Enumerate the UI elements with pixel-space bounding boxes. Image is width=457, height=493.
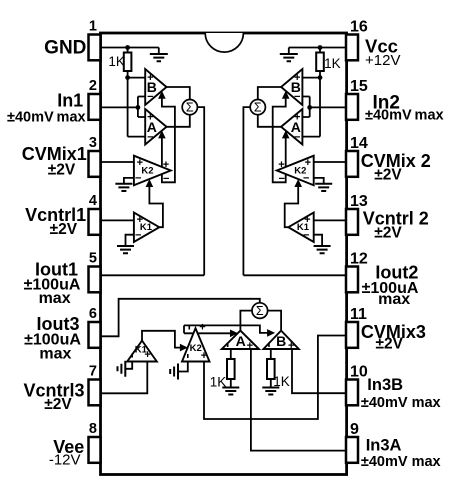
svg-text:±2V: ±2V: [374, 225, 402, 242]
svg-text:Σ: Σ: [186, 101, 194, 115]
svg-text:Σ: Σ: [254, 101, 262, 115]
svg-text:−: −: [147, 91, 153, 103]
svg-text:max: max: [39, 346, 71, 363]
svg-text:+: +: [147, 72, 153, 84]
svg-text:+: +: [304, 214, 310, 226]
svg-text:13: 13: [350, 193, 368, 210]
svg-text:2: 2: [89, 78, 97, 94]
svg-text:10: 10: [350, 364, 368, 381]
svg-text:8: 8: [89, 421, 97, 437]
svg-text:−: −: [135, 229, 141, 241]
svg-text:-12V: -12V: [49, 451, 81, 468]
svg-text:1K: 1K: [324, 56, 341, 71]
svg-text:−: −: [303, 172, 309, 184]
svg-text:+12V: +12V: [365, 52, 400, 69]
svg-text:−: −: [135, 172, 141, 184]
svg-text:±40mV max: ±40mV max: [361, 395, 441, 411]
svg-text:B: B: [276, 333, 286, 349]
svg-text:16: 16: [350, 19, 368, 36]
svg-text:+: +: [199, 321, 205, 333]
svg-text:−: −: [294, 91, 300, 103]
svg-text:max: max: [39, 290, 71, 307]
svg-text:GND: GND: [44, 37, 86, 58]
svg-text:−: −: [278, 173, 284, 185]
svg-text:Σ: Σ: [256, 304, 264, 318]
svg-text:K2: K2: [141, 166, 153, 177]
svg-text:+: +: [278, 159, 284, 171]
svg-text:±40mV max: ±40mV max: [7, 110, 86, 126]
svg-text:−: −: [163, 173, 169, 185]
svg-text:15: 15: [350, 78, 368, 95]
svg-text:5: 5: [89, 251, 97, 267]
svg-text:A: A: [236, 333, 246, 349]
svg-text:+: +: [294, 72, 300, 84]
svg-text:±40mV max: ±40mV max: [361, 454, 441, 470]
svg-text:max: max: [378, 291, 410, 308]
svg-text:3: 3: [89, 135, 97, 151]
svg-text:−: −: [147, 131, 153, 143]
svg-text:+: +: [137, 157, 143, 169]
svg-text:14: 14: [350, 135, 368, 152]
svg-text:4: 4: [89, 193, 97, 209]
svg-text:1: 1: [89, 19, 97, 35]
svg-text:12: 12: [350, 251, 368, 268]
svg-text:±2V: ±2V: [376, 336, 404, 353]
svg-text:+: +: [294, 112, 300, 124]
svg-text:+: +: [137, 214, 143, 226]
svg-text:±2V: ±2V: [44, 396, 72, 413]
svg-text:+: +: [288, 340, 294, 352]
svg-text:6: 6: [89, 306, 97, 322]
svg-text:−: −: [294, 131, 300, 143]
svg-text:+: +: [147, 112, 153, 124]
svg-text:±2V: ±2V: [50, 221, 78, 238]
svg-text:In3B: In3B: [367, 376, 403, 394]
svg-text:+: +: [144, 349, 150, 361]
svg-text:±40mV max: ±40mV max: [365, 108, 444, 124]
svg-text:1K: 1K: [108, 54, 125, 69]
svg-text:±2V: ±2V: [374, 167, 402, 184]
svg-text:9: 9: [350, 421, 359, 438]
svg-text:−: −: [303, 229, 309, 241]
svg-text:+: +: [163, 159, 169, 171]
svg-text:11: 11: [350, 306, 367, 323]
svg-text:7: 7: [89, 364, 97, 380]
svg-text:In1: In1: [57, 91, 83, 111]
svg-text:±2V: ±2V: [48, 161, 76, 178]
svg-text:+: +: [305, 157, 311, 169]
svg-text:+: +: [247, 340, 253, 352]
svg-text:In3A: In3A: [366, 437, 402, 455]
svg-text:+: +: [201, 350, 207, 362]
